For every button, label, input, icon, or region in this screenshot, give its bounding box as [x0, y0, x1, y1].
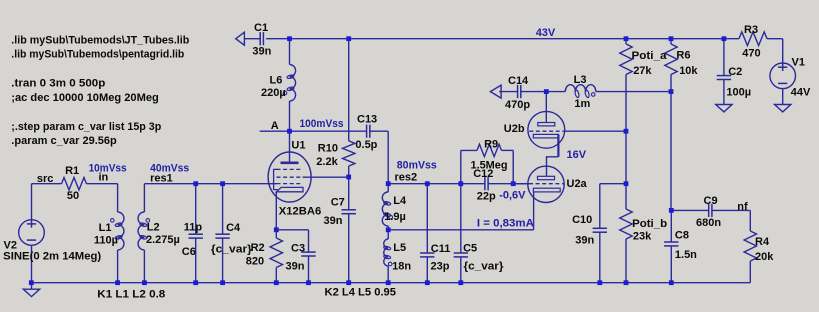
svg-text:U2a: U2a [567, 178, 588, 190]
svg-text:SINE(0 2m 14Meg): SINE(0 2m 14Meg) [3, 251, 101, 263]
svg-text:C5: C5 [463, 243, 477, 255]
svg-text:V1: V1 [792, 56, 805, 68]
svg-text:11p: 11p [184, 222, 203, 234]
svg-text:C6: C6 [182, 246, 196, 258]
svg-text:16V: 16V [567, 149, 587, 161]
inductor L3 [565, 85, 596, 92]
svg-text:C14: C14 [508, 75, 529, 87]
wire res2 [388, 183, 485, 185]
svg-text:X12BA6: X12BA6 [279, 205, 322, 217]
capacitor C4 [222, 184, 224, 235]
svg-text:43V: 43V [536, 27, 556, 39]
svg-text:100mVss: 100mVss [300, 118, 344, 130]
svg-text:1.5n: 1.5n [675, 249, 697, 261]
svg-text:23p: 23p [431, 260, 450, 272]
svg-text:39n: 39n [324, 215, 343, 227]
svg-text:R2: R2 [251, 242, 265, 254]
capacitor C6 [195, 184, 197, 235]
svg-text:L4: L4 [393, 195, 407, 207]
ground at V1 [775, 105, 791, 112]
svg-text:L5: L5 [393, 242, 406, 254]
triode U2b [528, 111, 565, 148]
svg-text:{c_var}: {c_var} [464, 261, 505, 273]
junction squares [287, 36, 292, 41]
capacitor C14 [499, 91, 517, 93]
capacitor C9 [671, 209, 708, 211]
wire R6 node down to C8/C9 node [670, 92, 672, 211]
capacitor C1 [259, 32, 261, 45]
wire rail to V1 [767, 38, 783, 40]
svg-text:V2: V2 [4, 239, 17, 251]
svg-text:.param c_var 29.56p: .param c_var 29.56p [11, 135, 117, 147]
svg-text:80mVss: 80mVss [397, 160, 437, 172]
svg-text:1m: 1m [574, 98, 590, 110]
svg-text:R6: R6 [676, 50, 690, 62]
svg-text:R10: R10 [318, 143, 338, 155]
svg-text:22p: 22p [477, 190, 496, 202]
triode U2a [528, 166, 564, 202]
svg-text:-0,6V: -0,6V [499, 190, 526, 202]
svg-text:L2: L2 [147, 222, 160, 234]
wire cathode tap to L4-L5 [388, 229, 533, 231]
svg-text:39n: 39n [252, 45, 271, 57]
svg-text:Poti_a: Poti_a [632, 50, 668, 62]
wire C13 down to res2 [387, 131, 389, 184]
inductor L2 [143, 184, 145, 212]
svg-text:C13: C13 [357, 114, 377, 126]
svg-text:K2 L4 L5 0.95: K2 L4 L5 0.95 [325, 287, 397, 299]
resistor R2 [275, 230, 277, 238]
svg-text:.tran 0 3m 0 500p: .tran 0 3m 0 500p [11, 78, 105, 90]
svg-text:res2: res2 [395, 172, 418, 184]
ground at V2 [31, 283, 33, 290]
svg-text:U2b: U2b [504, 123, 525, 135]
svg-text:820: 820 [246, 256, 264, 268]
svg-text:C3: C3 [291, 243, 305, 255]
svg-text:A: A [271, 120, 279, 132]
svg-text:C4: C4 [226, 222, 241, 234]
svg-text:2.275µ: 2.275µ [146, 234, 180, 246]
svg-text:680n: 680n [696, 217, 721, 229]
svg-text:Poti_b: Poti_b [632, 218, 667, 230]
capacitor C8 [670, 210, 672, 242]
svg-text:0.5p: 0.5p [355, 139, 377, 151]
svg-text:C7: C7 [331, 197, 345, 209]
resistor Poti_a [625, 39, 627, 44]
svg-text:C1: C1 [254, 22, 268, 34]
svg-text:2.2k: 2.2k [316, 156, 338, 168]
capacitor C10 [600, 183, 626, 185]
svg-text:K1 L1 L2 0.8: K1 L1 L2 0.8 [97, 289, 165, 301]
capacitor C7 [348, 177, 350, 210]
svg-text:C2: C2 [728, 66, 742, 78]
port/antenna symbol at C1 [236, 32, 245, 45]
svg-text:20k: 20k [755, 251, 774, 263]
svg-text:10mVss: 10mVss [89, 162, 127, 174]
inductor L6 [289, 39, 291, 65]
svg-text:18n: 18n [392, 260, 411, 272]
svg-text:L1: L1 [99, 222, 112, 234]
svg-text:C9: C9 [704, 195, 718, 207]
svg-text:C10: C10 [572, 214, 592, 226]
pentagrid tube U1 [268, 152, 311, 202]
resistor R3 [739, 32, 767, 46]
inductor L5 [387, 230, 389, 239]
svg-text:40mVss: 40mVss [150, 162, 189, 174]
svg-text:{c_var}: {c_var} [211, 244, 253, 256]
capacitor C3 [276, 229, 308, 231]
svg-text:220µ: 220µ [261, 87, 286, 99]
svg-text:39n: 39n [286, 260, 305, 272]
svg-text:110µ: 110µ [94, 234, 118, 246]
capacitor C2 [723, 39, 725, 76]
wire res1 [144, 183, 277, 185]
resistor Poti_b [625, 184, 627, 209]
svg-text:1.9µ: 1.9µ [384, 211, 406, 223]
svg-text:;.step param c_var list 15p 3p: ;.step param c_var list 15p 3p [11, 121, 161, 133]
voltage source V2 [31, 184, 33, 220]
svg-text:.lib mySub\Tubemods\JT_Tubes.l: .lib mySub\Tubemods\JT_Tubes.lib [11, 34, 189, 46]
svg-text:R3: R3 [744, 24, 758, 36]
svg-text:27k: 27k [633, 65, 652, 77]
capacitor C5 [460, 184, 462, 253]
resistor R9 with loop [460, 150, 462, 183]
svg-text:C8: C8 [675, 229, 689, 241]
svg-text:;ac dec 10000 10Meg 20Meg: ;ac dec 10000 10Meg 20Meg [11, 92, 159, 104]
capacitor C12 [484, 177, 486, 190]
svg-text:U1: U1 [291, 140, 305, 152]
svg-text:23k: 23k [633, 230, 652, 242]
resistor R6 [670, 39, 672, 44]
ground at C2 [716, 105, 732, 112]
svg-text:nf: nf [737, 201, 748, 213]
voltage source V1 [770, 63, 796, 89]
resistor R1 [32, 183, 62, 185]
svg-text:C11: C11 [431, 243, 451, 255]
resistor R10 [348, 39, 350, 141]
svg-text:39n: 39n [575, 235, 594, 247]
capacitor C11 [426, 184, 428, 253]
inductor L1 [117, 184, 119, 212]
resistor R4 [749, 210, 751, 231]
svg-text:470p: 470p [505, 99, 530, 111]
wire U2b-grid node down / Poti_b branch [625, 131, 627, 184]
svg-text:44V: 44V [791, 86, 811, 98]
svg-text:.lib mySub\Tubemods\pentagrid.: .lib mySub\Tubemods\pentagrid.lib [11, 48, 184, 60]
capacitor C13 [366, 125, 368, 138]
svg-text:10k: 10k [679, 65, 698, 77]
svg-text:R4: R4 [755, 236, 770, 248]
svg-text:50: 50 [67, 190, 79, 202]
wire bottom ground rail [31, 282, 750, 284]
port/antenna symbol at C14 [490, 85, 501, 98]
svg-text:L6: L6 [270, 75, 283, 87]
svg-text:R1: R1 [65, 165, 79, 177]
inductor L4 [387, 184, 389, 192]
svg-text:470: 470 [742, 48, 760, 60]
svg-text:1.5Meg: 1.5Meg [471, 159, 508, 171]
svg-text:100µ: 100µ [726, 86, 751, 98]
svg-text:L3: L3 [574, 74, 587, 86]
wire top +43V rail [244, 38, 259, 40]
wire node A horizontal [260, 130, 367, 132]
svg-text:I = 0,83mA: I = 0,83mA [477, 217, 534, 229]
svg-text:R9: R9 [484, 138, 498, 150]
